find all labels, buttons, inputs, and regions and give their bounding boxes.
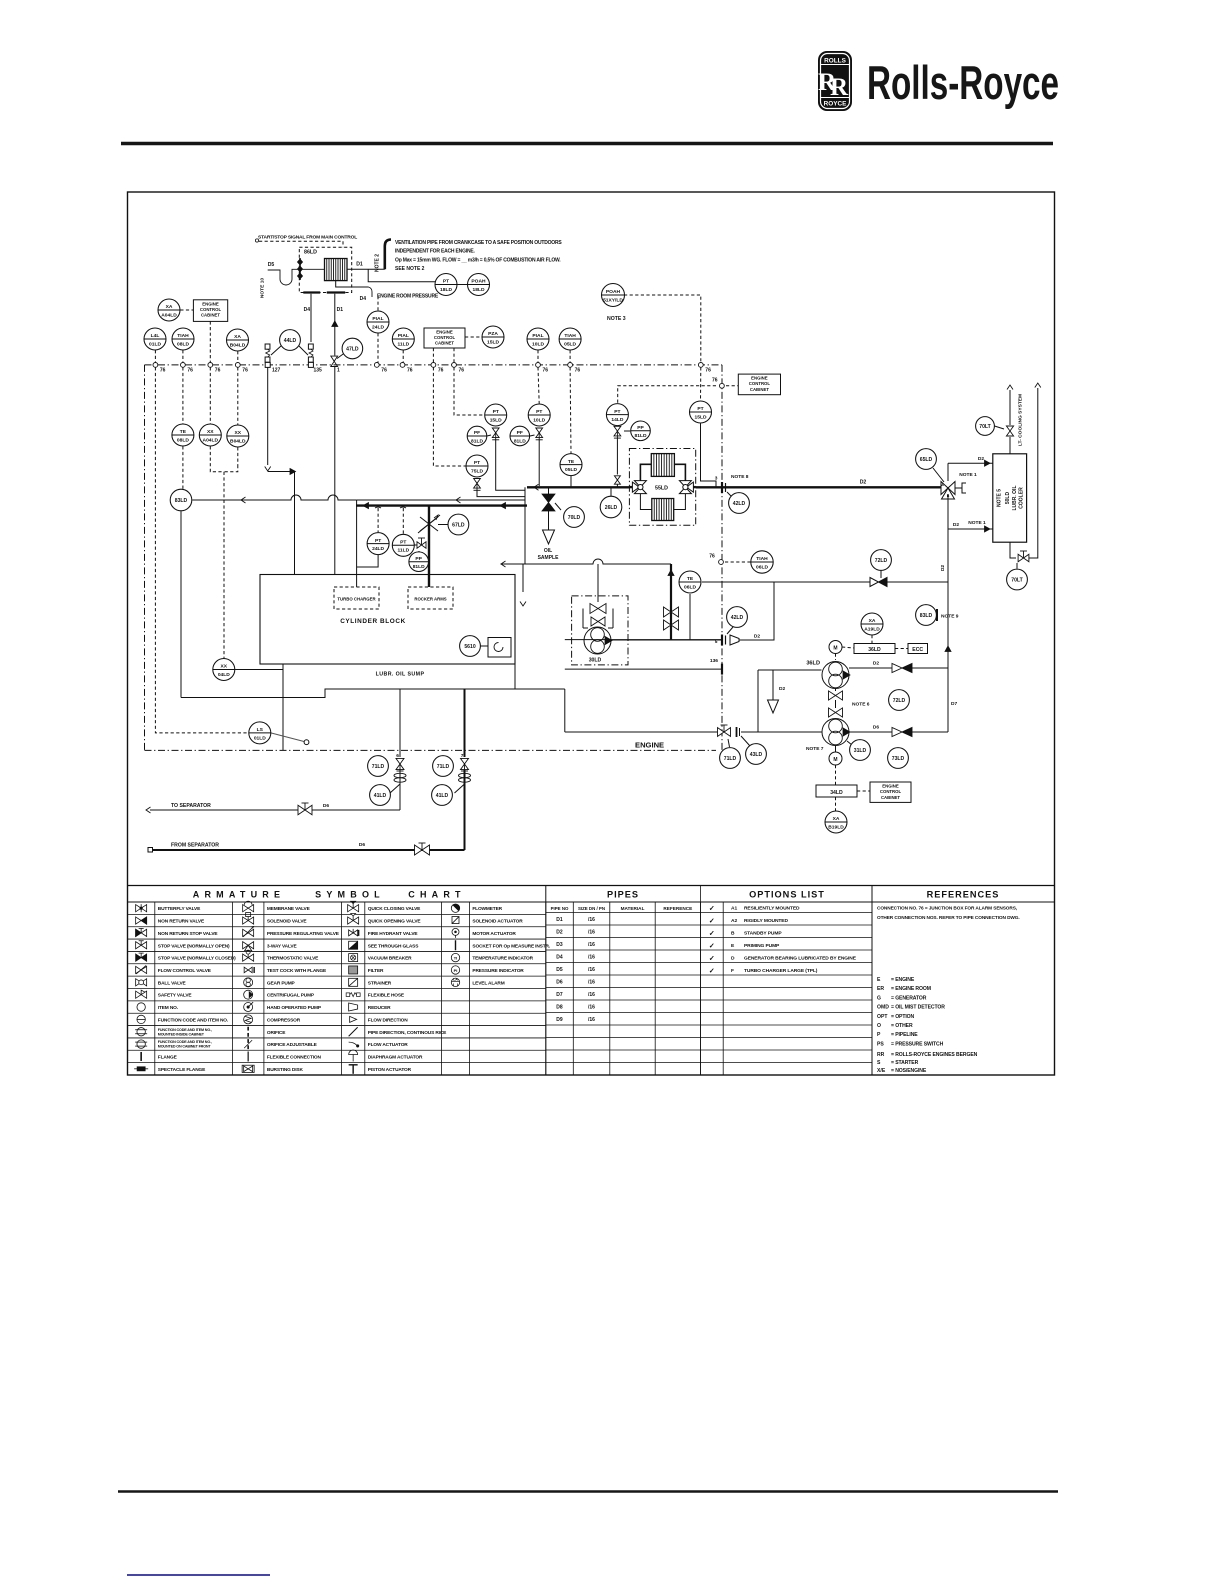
31LD	[850, 740, 871, 761]
legend symbol fcode3	[135, 1028, 147, 1036]
svg-text:D3: D3	[556, 942, 563, 948]
svg-text:A1: A1	[731, 905, 738, 911]
71LD-3	[720, 748, 741, 769]
XA B04LD	[227, 329, 249, 351]
svg-text:D2: D2	[860, 480, 867, 486]
orifice pair on D4 line	[308, 344, 313, 362]
legend symbol fcode	[137, 1015, 145, 1023]
svg-text:55LD: 55LD	[655, 485, 668, 491]
svg-text:04LD: 04LD	[218, 672, 230, 678]
svg-text:NOTE 9: NOTE 9	[941, 614, 959, 620]
svg-text:75LD: 75LD	[471, 468, 483, 474]
svg-text:81LD: 81LD	[514, 438, 526, 444]
legend symbol handpump	[244, 1002, 254, 1012]
wire 36LD box to ECC	[895, 648, 908, 650]
legend symbol nonret	[136, 917, 147, 924]
wire PIAL-11LD drop	[402, 350, 404, 362]
wire 72LD bubble	[880, 571, 882, 579]
svg-text:D6: D6	[556, 979, 563, 985]
pipe 83LD column	[180, 511, 182, 697]
wire 34LD to XA-B19LD	[835, 797, 837, 811]
svg-text:01LD: 01LD	[149, 341, 161, 347]
svg-text:F: F	[731, 968, 734, 974]
svg-text:XA: XA	[833, 816, 840, 822]
wire junction to PT-75LD	[433, 367, 465, 466]
header horizontal rule	[121, 142, 1053, 146]
svg-text:FIRE HYDRANT VALVE: FIRE HYDRANT VALVE	[368, 931, 419, 937]
svg-text:CONTROL: CONTROL	[749, 381, 771, 386]
POAH 51XY/LD	[602, 284, 625, 307]
pipes grid	[546, 886, 872, 1076]
junction 76 at x=155.4	[153, 363, 158, 368]
wire PT-11LD sensing	[402, 508, 404, 534]
wire PT-24LD sensing	[377, 508, 379, 532]
v	[614, 426, 621, 438]
svg-text:PT: PT	[400, 540, 406, 546]
svg-text:FLEXIBLE CONNECTION: FLEXIBLE CONNECTION	[267, 1054, 322, 1060]
junction 76 at x=433.4	[431, 363, 436, 368]
svg-text:D7: D7	[951, 701, 957, 707]
PIAL 11LD	[392, 328, 414, 350]
svg-text:= NOS/ENGINE: = NOS/ENGINE	[891, 1068, 927, 1074]
svg-text:REFERENCE: REFERENCE	[663, 906, 692, 911]
42LD-2	[727, 607, 748, 628]
svg-text:FLOW ACTUATOR: FLOW ACTUATOR	[368, 1042, 408, 1048]
valve on TE-05LD column	[570, 476, 572, 488]
svg-text:CONTROL: CONTROL	[880, 789, 902, 794]
svg-text:34LD: 34LD	[830, 790, 843, 796]
65LD	[916, 449, 937, 470]
legend symbol flowdir	[350, 1016, 357, 1022]
svg-text:OPT: OPT	[877, 1014, 888, 1020]
pipe rocker arms branch thick	[428, 506, 430, 587]
svg-text:M: M	[833, 757, 837, 763]
control valve column	[670, 564, 672, 640]
svg-text:SOLENOID ACTUATOR: SOLENOID ACTUATOR	[472, 919, 523, 925]
svg-text:76: 76	[187, 368, 193, 374]
svg-text:RIGIDLY MOUNTED: RIGIDLY MOUNTED	[744, 918, 788, 924]
svg-text:PIPE NO: PIPE NO	[551, 906, 569, 911]
v	[396, 758, 404, 771]
svg-text:XA: XA	[234, 334, 241, 340]
svg-text:B04LD: B04LD	[230, 342, 246, 348]
svg-text:TE: TE	[180, 429, 187, 435]
PT 75LD	[466, 455, 488, 477]
svg-text:08LD: 08LD	[177, 437, 189, 443]
pipe D2 riser to cooler	[947, 463, 949, 481]
rocker arms dashed box	[408, 587, 453, 609]
svg-text:= ENGINE: = ENGINE	[891, 977, 915, 983]
wire 34LD to cabinet4	[857, 790, 870, 792]
legend symbol burst	[242, 1065, 254, 1072]
svg-text:A04LD: A04LD	[203, 437, 219, 443]
wire 31LD bubble	[847, 741, 852, 745]
svg-text:ENGINE: ENGINE	[882, 784, 899, 789]
svg-text:3: 3	[715, 476, 718, 482]
svg-text:ROCKER ARMS: ROCKER ARMS	[414, 597, 446, 602]
legend symbol pi	[451, 966, 459, 974]
pipe D1 from separator to vent riser	[347, 268, 385, 270]
wire M to 34LD box	[835, 765, 837, 785]
svg-text:PIAL: PIAL	[398, 333, 409, 339]
legend symbol membrane	[243, 901, 254, 912]
legend symbol flexconn	[247, 1051, 249, 1061]
legend symbol orifice	[247, 1027, 249, 1037]
junction 76 at x=376.8	[374, 363, 379, 368]
svg-text:PT: PT	[443, 279, 449, 285]
svg-text:D: D	[731, 955, 735, 961]
wire PIAL-10LD drop	[537, 350, 539, 362]
v	[492, 428, 499, 440]
pump	[822, 719, 850, 746]
svg-text:TIAH: TIAH	[756, 556, 768, 562]
junction 76 at x=210.3	[208, 363, 213, 368]
svg-text:/16: /16	[588, 967, 595, 973]
legend symbol flange	[140, 1052, 142, 1061]
svg-text:D9: D9	[556, 1017, 563, 1023]
XX B04LD	[227, 425, 249, 447]
svg-text:76: 76	[215, 368, 221, 374]
v	[1006, 426, 1013, 436]
svg-text:31LD: 31LD	[854, 748, 867, 754]
svg-text:76: 76	[712, 378, 718, 384]
svg-text:/16: /16	[588, 942, 595, 948]
svg-text:✓: ✓	[709, 943, 715, 950]
v	[461, 758, 469, 771]
legend symbol fcode3	[135, 1040, 147, 1048]
svg-text:NOTE 3: NOTE 3	[607, 316, 626, 322]
svg-text:MEMBRANE VALVE: MEMBRANE VALVE	[267, 906, 311, 912]
capped stub right of 3-way valve	[955, 487, 962, 489]
svg-text:QUICK CLOSING VALVE: QUICK CLOSING VALVE	[368, 906, 421, 912]
wire XX bubbles to XX-04LD	[210, 446, 224, 658]
pipe L from filters down	[524, 487, 526, 564]
engine boundary dash-dot right edge	[721, 365, 723, 751]
engine control cabinet box 4	[870, 782, 911, 802]
svg-text:ECC: ECC	[912, 647, 923, 653]
svg-text:LUBR. OIL: LUBR. OIL	[1012, 486, 1018, 511]
flow element D2	[892, 664, 912, 673]
legend symbol nonretstop	[136, 928, 147, 936]
oil sample filter 70LD	[542, 487, 561, 530]
svg-text:D2: D2	[556, 929, 563, 935]
svg-text:VACUUM BREAKER: VACUUM BREAKER	[368, 956, 412, 962]
wire 47LD to valve	[337, 353, 345, 359]
71LD-2	[433, 756, 454, 777]
legend symbol safety	[136, 990, 147, 998]
svg-text:76: 76	[705, 368, 711, 374]
svg-text:/16: /16	[588, 1017, 595, 1023]
svg-text:TEMPERATURE INDICATOR: TEMPERATURE INDICATOR	[472, 956, 533, 962]
legend symbol reducer	[349, 1003, 358, 1011]
cylinder block box	[260, 575, 515, 665]
svg-text:PT: PT	[536, 409, 542, 415]
svg-text:10LD: 10LD	[533, 417, 545, 423]
wire PIAL-24LD drop	[377, 296, 379, 311]
pipe PT-75LD tap	[477, 490, 525, 496]
70LD	[564, 507, 585, 528]
svg-text:XX: XX	[221, 664, 228, 670]
svg-text:FLOW DIRECTION: FLOW DIRECTION	[368, 1017, 408, 1023]
svg-text:D2: D2	[754, 634, 760, 640]
TE 08LD	[172, 424, 194, 446]
engine room pressure tap	[336, 281, 369, 287]
svg-text:PP: PP	[415, 556, 422, 562]
flange separator column 7	[459, 773, 471, 782]
svg-text:ENGINE: ENGINE	[436, 329, 453, 334]
svg-text:Rolls-Royce: Rolls-Royce	[867, 56, 1059, 109]
legend symbol gearpump	[244, 978, 253, 987]
engine control cabinet box 1	[193, 300, 227, 322]
svg-text:TEST COCK WITH FLANGE: TEST COCK WITH FLANGE	[267, 968, 327, 974]
box 36LD control	[854, 644, 895, 654]
wire 67LD connector	[438, 524, 448, 526]
wire junctions to alarm bubbles	[154, 350, 156, 362]
wire 70LT lower bubble	[1016, 563, 1018, 569]
TIAH 05LD	[559, 328, 581, 350]
legend symbol butterfly	[136, 904, 147, 912]
svg-text:ROYCE: ROYCE	[824, 101, 847, 108]
svg-text:15LD: 15LD	[487, 339, 499, 345]
svg-text:QUICK OPENING VALVE: QUICK OPENING VALVE	[368, 919, 422, 925]
5610	[460, 636, 481, 657]
pipe stubs into cocks	[629, 486, 634, 488]
svg-text:FLANGE: FLANGE	[158, 1054, 178, 1060]
26LD	[600, 496, 622, 518]
svg-text:THERMOSTATIC VALVE: THERMOSTATIC VALVE	[267, 956, 319, 962]
43LD	[746, 744, 767, 765]
svg-text:14LD: 14LD	[611, 417, 623, 423]
PT 15LD	[485, 404, 507, 426]
svg-text:/16: /16	[588, 979, 595, 985]
svg-text:NOTE 5: NOTE 5	[997, 489, 1003, 507]
svg-text:CYLINDER BLOCK: CYLINDER BLOCK	[340, 618, 406, 625]
svg-text:ORIFICE: ORIFICE	[267, 1030, 286, 1036]
svg-text:/16: /16	[588, 929, 595, 935]
flange pair on 86LD box bottom	[303, 291, 320, 293]
motor M circle lower	[829, 752, 842, 765]
svg-text:✓: ✓	[709, 968, 715, 975]
h	[651, 454, 674, 477]
pipe into cylinder block left	[294, 472, 296, 575]
svg-text:PIAL: PIAL	[532, 333, 543, 339]
svg-text:GENERATOR BEARING LUBRICATED B: GENERATOR BEARING LUBRICATED BY ENGINE	[744, 955, 857, 961]
pipe thick supply header	[356, 504, 527, 506]
pipe D1 drop line	[334, 294, 336, 356]
junction 76 at x=402.5	[400, 363, 405, 368]
pipe thick main supply to 3-way valve	[696, 486, 941, 488]
svg-text:50LD: 50LD	[1005, 492, 1011, 505]
PT 14LD	[606, 404, 628, 426]
pump	[822, 662, 850, 689]
svg-text:CABINET: CABINET	[750, 387, 769, 392]
svg-text:MOUNTED INSIDE CABINET: MOUNTED INSIDE CABINET	[158, 1032, 205, 1036]
PF 81LD-2	[510, 426, 530, 446]
svg-text:43LD: 43LD	[750, 752, 763, 758]
PF 81LD	[467, 426, 487, 446]
pipe LT return riser	[1029, 388, 1038, 558]
legend symbol spectacle	[134, 1067, 148, 1071]
svg-text:81LD: 81LD	[635, 433, 647, 439]
72LD	[871, 550, 892, 571]
svg-text:ENGINE: ENGINE	[751, 376, 768, 381]
svg-text:PRESSURE INDICATOR: PRESSURE INDICATOR	[472, 968, 524, 974]
svg-text:SPECTACLE FLANGE: SPECTACLE FLANGE	[158, 1067, 206, 1073]
motor M circle upper	[829, 641, 842, 654]
svg-text:15LD: 15LD	[490, 417, 502, 423]
PP 81LD	[631, 421, 651, 441]
pipe separator column 7	[464, 689, 466, 757]
wire POAH-51XY to junction	[624, 295, 701, 363]
wire 43LD bubble	[741, 736, 750, 746]
pipe drop to pump 30LD	[597, 564, 599, 602]
TIAH 06LD	[751, 551, 773, 573]
svg-text:72LD: 72LD	[875, 558, 888, 564]
PT 18LD	[435, 274, 457, 296]
svg-text:71LD: 71LD	[724, 756, 737, 762]
svg-text:51XY/LD: 51XY/LD	[603, 297, 623, 303]
svg-text:OIL: OIL	[544, 548, 552, 554]
wire junction to PT-15LD	[454, 367, 485, 415]
diagram outer border	[128, 192, 1055, 1075]
svg-text:NOTE 1: NOTE 1	[959, 472, 977, 478]
pipe PT-14LD tap	[616, 438, 618, 475]
svg-text:24LD: 24LD	[372, 324, 384, 330]
svg-text:44LD: 44LD	[284, 338, 297, 344]
pipe LT return	[1010, 542, 1016, 558]
svg-text:MATERIAL: MATERIAL	[621, 906, 645, 911]
vent riser NOTE 2	[385, 240, 391, 270]
svg-text:LT- COOLING SYSTEM: LT- COOLING SYSTEM	[1018, 394, 1024, 446]
legend symbol centpump	[244, 990, 253, 999]
legend symbol stopnc	[136, 953, 147, 961]
svg-text:CONNECTION NO. 76 = JUNCTION B: CONNECTION NO. 76 = JUNCTION BOX FOR ALA…	[877, 906, 1017, 912]
svg-text:START/STOP SIGNAL FROM MAIN CO: START/STOP SIGNAL FROM MAIN CONTROL	[258, 235, 357, 241]
svg-text:P: P	[877, 1032, 881, 1038]
pipe suction riser	[757, 670, 759, 732]
valve D1	[331, 356, 338, 366]
pipe cooler to LT system	[1009, 390, 1011, 425]
svg-text:15LD: 15LD	[695, 414, 707, 420]
svg-text:OTHER CONNECTION NOS. REFER TO: OTHER CONNECTION NOS. REFER TO PIPE CONN…	[877, 915, 1020, 921]
svg-text:36LD: 36LD	[868, 647, 881, 653]
svg-text:NOTE 10: NOTE 10	[260, 278, 266, 298]
svg-text:81LD: 81LD	[413, 564, 425, 570]
svg-text:BALL VALVE: BALL VALVE	[158, 980, 187, 986]
svg-text:42LD: 42LD	[733, 501, 746, 507]
PT 24LD	[367, 533, 389, 555]
pipe FROM SEPARATOR	[464, 770, 466, 850]
svg-text:D6: D6	[359, 842, 365, 848]
box ECC	[908, 644, 928, 654]
svg-text:127: 127	[272, 368, 281, 374]
svg-text:71LD: 71LD	[372, 764, 385, 770]
svg-text:G: G	[877, 995, 881, 1001]
svg-text:MOUNTED ON CABINET FRONT: MOUNTED ON CABINET FRONT	[158, 1045, 212, 1049]
svg-text:65LD: 65LD	[920, 457, 933, 463]
standby pump 30LD dash-dot box	[572, 596, 628, 665]
junction 76 at x=700.8	[698, 363, 703, 368]
flange separator column 6	[394, 773, 406, 782]
PZA 15LD	[482, 326, 504, 348]
pipe separator column 6	[399, 689, 401, 757]
engine boundary dash-dot top edge	[145, 364, 723, 366]
flexible connection symbol on 86LD box	[297, 258, 302, 280]
svg-text:COMPRESSOR: COMPRESSOR	[267, 1017, 301, 1023]
orifice pair on D5 line	[265, 344, 270, 362]
svg-text:PT: PT	[474, 460, 480, 466]
pipe suction header lower	[758, 731, 822, 733]
svg-text:SEE NOTE 2: SEE NOTE 2	[395, 266, 425, 272]
start/stop dashed signal wire	[259, 241, 343, 247]
pipe PT-15LD tap	[496, 440, 525, 490]
wire cabinet2 to PZA-15LD	[465, 336, 482, 338]
svg-text:NON RETURN STOP VALVE: NON RETURN STOP VALVE	[158, 931, 219, 937]
v	[829, 691, 843, 700]
71LD	[368, 756, 389, 777]
svg-text:D2: D2	[940, 565, 946, 571]
Rolls-Royce badge logo	[818, 51, 852, 111]
wire PT-24LD tap	[357, 555, 379, 567]
svg-text:D1: D1	[356, 262, 363, 268]
svg-text:TI: TI	[454, 955, 458, 960]
svg-text:ROLLS: ROLLS	[824, 57, 846, 64]
legend symbol filter	[349, 966, 358, 974]
PT 10LD	[528, 404, 550, 426]
legend symbol flowctl	[136, 965, 147, 974]
72LD-2	[889, 690, 910, 711]
wire TIAH-05LD drop	[569, 350, 571, 362]
wire junction to PT-10LD	[538, 367, 539, 403]
svg-text:ENGINE: ENGINE	[202, 301, 219, 306]
pump 30LD	[584, 627, 612, 654]
wire junction to XX-A04LD	[209, 367, 211, 424]
junction 127 square	[265, 362, 270, 367]
TE 06LD	[679, 571, 701, 593]
svg-text:47LD: 47LD	[346, 347, 359, 353]
engine control cabinet box 3	[738, 374, 780, 395]
svg-text:SYMBOL: SYMBOL	[315, 890, 385, 900]
svg-text:41LD: 41LD	[374, 793, 387, 799]
svg-text:71LD: 71LD	[437, 764, 450, 770]
svg-text:41LD: 41LD	[436, 793, 449, 799]
wire M to 36LD box	[842, 647, 854, 648]
XA A19LD	[861, 613, 883, 635]
svg-text:TE: TE	[568, 459, 575, 465]
legend symbol quickclose	[348, 901, 359, 912]
svg-text:D6: D6	[323, 803, 329, 809]
wire 41LD bubble 6	[390, 784, 400, 793]
svg-text:5610: 5610	[464, 644, 475, 650]
svg-text:TIAH: TIAH	[177, 333, 189, 339]
svg-text:R: R	[830, 74, 849, 101]
wire 76 junction down-left long	[155, 367, 249, 733]
legend symbol stopno	[136, 941, 147, 949]
svg-text:3-WAY VALVE: 3-WAY VALVE	[267, 943, 298, 949]
wire cabinet3 dashed to PT-14LD	[618, 386, 716, 404]
44LD	[280, 330, 301, 351]
wire cabinet2 drops to junctions	[432, 348, 434, 363]
svg-text:O: O	[877, 1023, 881, 1029]
LS 01LD	[249, 722, 271, 744]
svg-text:26LD: 26LD	[605, 505, 618, 511]
svg-text:CABINET: CABINET	[435, 341, 454, 346]
flow nozzle after junction 5	[730, 635, 739, 645]
svg-text:L4L: L4L	[151, 333, 160, 339]
junction 76 at x=182.9	[181, 363, 186, 368]
svg-text:PRIMING PUMP: PRIMING PUMP	[744, 943, 780, 949]
svg-text:PT: PT	[614, 409, 620, 415]
